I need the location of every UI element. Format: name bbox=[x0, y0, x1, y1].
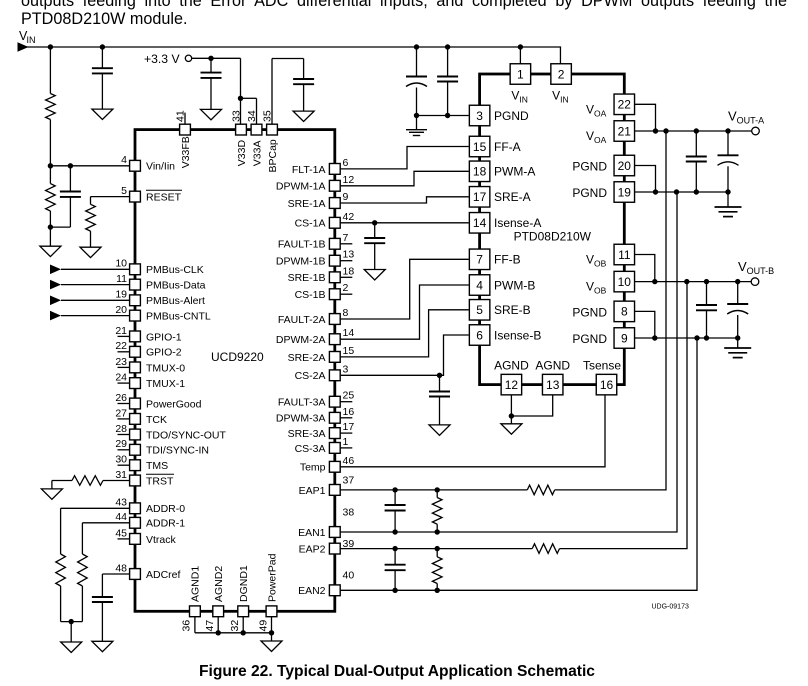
svg-text:18: 18 bbox=[473, 165, 487, 179]
svg-text:44: 44 bbox=[115, 511, 127, 523]
wire BPCap pin 35 to bypass cap bbox=[271, 59, 273, 124]
svg-text:GPIO-2: GPIO-2 bbox=[146, 347, 182, 359]
svg-text:19: 19 bbox=[618, 185, 632, 199]
svg-text:FAULT-2A: FAULT-2A bbox=[278, 314, 326, 326]
pin 14 DPWM-2A of UCD9220 bbox=[329, 334, 340, 345]
pin 4 Vin/Iin of UCD9220 bbox=[130, 160, 141, 171]
svg-text:7: 7 bbox=[476, 253, 483, 267]
wire PGND pin 3 row bbox=[417, 115, 469, 117]
pin 5 RESET of UCD9220 bbox=[130, 191, 141, 202]
svg-text:9: 9 bbox=[343, 191, 349, 203]
svg-text:Temp: Temp bbox=[300, 462, 326, 474]
pin 32 DGND1 of UCD9220 bbox=[238, 606, 249, 617]
junction AGND node bbox=[509, 413, 514, 418]
svg-text:ADCref: ADCref bbox=[146, 569, 181, 581]
svg-text:27: 27 bbox=[115, 407, 127, 419]
pin 20 PMBus-CNTL of UCD9220 bbox=[130, 310, 141, 321]
pin 21 VOA of PTD08D210W bbox=[614, 121, 635, 142]
svg-text:23: 23 bbox=[115, 356, 127, 368]
svg-text:9: 9 bbox=[621, 331, 628, 345]
pin 17 SRE-3A of UCD9220 bbox=[341, 432, 353, 434]
pin 1 VIN of PTD08D210W bbox=[510, 64, 531, 85]
svg-text:VOB: VOB bbox=[586, 253, 607, 269]
svg-text:22: 22 bbox=[115, 340, 127, 352]
svg-text:41: 41 bbox=[174, 110, 186, 122]
wire VOB pin 11 stub bbox=[635, 255, 655, 282]
pin 22 VOA of PTD08D210W bbox=[614, 94, 635, 115]
wire ADDR resistors junction to ground bbox=[61, 621, 83, 623]
junction divider bottom bbox=[48, 224, 53, 229]
capacitor CS-1A filter bbox=[374, 223, 376, 238]
svg-text:47: 47 bbox=[204, 620, 216, 632]
resistor EA2 divider bbox=[436, 549, 438, 557]
pin 26 PowerGood of UCD9220 bbox=[118, 403, 130, 405]
wire DPWM-2A to PWM-B bbox=[341, 285, 469, 339]
pin 48 ADCref of UCD9220 bbox=[130, 569, 141, 580]
svg-text:SRE-1B: SRE-1B bbox=[288, 272, 326, 284]
svg-text:1: 1 bbox=[517, 68, 524, 82]
svg-text:28: 28 bbox=[115, 423, 127, 435]
pin 37 EAP1 of UCD9220 bbox=[329, 485, 340, 496]
wire PGND pin 8 stub bbox=[635, 311, 655, 338]
junction EAN2 divider bbox=[435, 588, 440, 593]
ground 3.3V bypass cap bbox=[201, 109, 222, 119]
pin 3 CS-2A of UCD9220 bbox=[329, 370, 340, 381]
pin 8 FAULT-2A of UCD9220 bbox=[329, 314, 340, 325]
svg-text:3: 3 bbox=[476, 109, 483, 123]
wire TRST to ground bbox=[51, 481, 53, 489]
pin 36 AGND1 of UCD9220 bbox=[190, 606, 201, 617]
junction EAP2 divider bbox=[435, 546, 440, 551]
svg-text:Tsense: Tsense bbox=[583, 359, 621, 373]
pin 29 TDI/SYNC-IN of UCD9220 bbox=[118, 449, 130, 451]
wire PMBus line to pin 20 bbox=[50, 311, 61, 321]
wire 3.3V to V33D pin 33 bbox=[240, 58, 242, 124]
svg-text:PMBus-CLK: PMBus-CLK bbox=[146, 264, 204, 276]
capacitor output A ceramic bbox=[695, 131, 697, 157]
pin 17 SRE-A of PTD08D210W bbox=[469, 187, 490, 208]
junction PGND-A rail bbox=[694, 189, 699, 194]
svg-text:PWM-B: PWM-B bbox=[494, 278, 535, 292]
ground VIN bulk cap bbox=[92, 109, 113, 119]
svg-text:32: 32 bbox=[229, 620, 241, 632]
svg-text:Vtrack: Vtrack bbox=[146, 534, 177, 546]
junction on VIN rail bbox=[100, 44, 105, 49]
pin 34 V33A of UCD9220 bbox=[251, 124, 262, 135]
capacitor output B bulk polarized bbox=[737, 282, 739, 304]
resistor ADDR-1 bbox=[78, 554, 88, 586]
svg-text:16: 16 bbox=[343, 406, 355, 418]
svg-text:5: 5 bbox=[121, 185, 127, 197]
ground PTD input bbox=[406, 129, 427, 131]
pin 30 TMS of UCD9220 bbox=[118, 464, 130, 466]
svg-text:6: 6 bbox=[343, 157, 349, 169]
resistor VIN divider upper bbox=[49, 47, 51, 94]
junction on VIN rail bbox=[445, 44, 450, 49]
svg-text:21: 21 bbox=[618, 124, 632, 138]
svg-text:FAULT-1B: FAULT-1B bbox=[278, 239, 326, 251]
svg-text:CS-1B: CS-1B bbox=[295, 289, 326, 301]
svg-text:FLT-1A: FLT-1A bbox=[292, 164, 326, 176]
ground CS-2A cap bbox=[429, 425, 450, 435]
svg-text:35: 35 bbox=[262, 110, 274, 122]
wire VOUT-A rail bbox=[635, 130, 753, 132]
node VIN input arrow bbox=[18, 42, 29, 52]
wire ADDR-1 to pin 44 bbox=[82, 522, 129, 524]
pin 2 VIN of PTD08D210W bbox=[551, 64, 572, 85]
svg-text:2: 2 bbox=[558, 68, 565, 82]
svg-text:19: 19 bbox=[115, 289, 127, 301]
junction on VIN rail bbox=[518, 44, 523, 49]
junction PGND-B rail bbox=[694, 335, 699, 340]
svg-text:FF-A: FF-A bbox=[494, 140, 521, 154]
svg-text:PMBus-Data: PMBus-Data bbox=[146, 280, 206, 292]
svg-text:37: 37 bbox=[343, 474, 355, 486]
svg-text:30: 30 bbox=[115, 454, 127, 466]
wire PGND-B rail bbox=[635, 337, 738, 339]
pin 7 FAULT-1B of UCD9220 bbox=[341, 243, 353, 245]
svg-text:5: 5 bbox=[476, 303, 483, 317]
junction PGND-B rail bbox=[704, 335, 709, 340]
node VOUT-A terminal bbox=[752, 127, 760, 135]
pin 13 DPWM-1B of UCD9220 bbox=[341, 260, 353, 262]
wire 3.3V branch to V33A pin 34 bbox=[241, 97, 257, 99]
svg-text:11: 11 bbox=[116, 273, 127, 285]
capacitor PTD input bulk polarized bbox=[416, 47, 418, 77]
pin 42 CS-1A of UCD9220 bbox=[329, 217, 340, 228]
svg-text:49: 49 bbox=[257, 620, 269, 632]
svg-text:VIN: VIN bbox=[552, 89, 569, 105]
svg-text:38: 38 bbox=[343, 507, 355, 519]
junction PGND-A rail bbox=[674, 189, 679, 194]
svg-text:31: 31 bbox=[115, 469, 127, 481]
wire CS-2A to Isense-B bbox=[341, 335, 469, 375]
pin 18 PWM-A of PTD08D210W bbox=[469, 161, 490, 182]
node VOUT-B terminal bbox=[751, 278, 759, 286]
pin 35 BPCap of UCD9220 bbox=[267, 124, 278, 135]
svg-text:PMBus-CNTL: PMBus-CNTL bbox=[146, 311, 211, 323]
svg-text:BPCap: BPCap bbox=[267, 139, 279, 172]
svg-text:TCK: TCK bbox=[146, 414, 167, 426]
svg-text:3: 3 bbox=[343, 363, 349, 375]
svg-text:Isense-A: Isense-A bbox=[494, 216, 541, 230]
pin 6 FLT-1A of UCD9220 bbox=[329, 164, 340, 175]
svg-text:25: 25 bbox=[343, 390, 355, 402]
svg-text:EAP2: EAP2 bbox=[299, 544, 326, 556]
svg-text:16: 16 bbox=[600, 378, 614, 392]
pin 8 PGND of PTD08D210W bbox=[614, 301, 635, 322]
svg-text:TRST: TRST bbox=[146, 475, 174, 487]
svg-text:TMUX-1: TMUX-1 bbox=[146, 378, 185, 390]
pin 38 EAN1 of UCD9220 bbox=[329, 527, 340, 538]
body text line 2 bbox=[21, 11, 187, 29]
svg-text:AGND: AGND bbox=[535, 359, 570, 373]
svg-text:PGND: PGND bbox=[572, 186, 607, 200]
pin 7 FF-B of PTD08D210W bbox=[469, 249, 490, 269]
junction EAN1 divider bbox=[435, 529, 440, 534]
ground CS-1A cap bbox=[364, 270, 385, 280]
ground UCD power pad bbox=[261, 641, 282, 651]
pin 19 PMBus-Alert of UCD9220 bbox=[130, 295, 141, 306]
ground BPCap cap bbox=[293, 111, 314, 121]
svg-text:48: 48 bbox=[115, 562, 127, 574]
svg-text:8: 8 bbox=[343, 307, 349, 319]
ground RESET resistor bbox=[80, 247, 101, 257]
wire divider bottom to ground bbox=[49, 227, 51, 246]
junction EAP2 cap bbox=[392, 546, 397, 551]
svg-text:15: 15 bbox=[473, 140, 487, 154]
svg-text:V33A: V33A bbox=[251, 141, 263, 167]
pin 2 CS-1B of UCD9220 bbox=[341, 293, 353, 295]
svg-text:AGND2: AGND2 bbox=[213, 566, 225, 602]
pin 12 DPWM-1A of UCD9220 bbox=[329, 180, 340, 191]
wire CS-1A to Isense-A bbox=[341, 222, 469, 224]
pin 9 PGND of PTD08D210W bbox=[614, 328, 635, 349]
svg-text:18: 18 bbox=[343, 265, 355, 277]
svg-text:DGND1: DGND1 bbox=[238, 565, 250, 602]
svg-text:20: 20 bbox=[618, 159, 632, 173]
junction PGND-B rail bbox=[652, 335, 657, 340]
svg-text:UDG-09173: UDG-09173 bbox=[652, 604, 689, 611]
svg-text:FF-B: FF-B bbox=[494, 253, 521, 267]
pin 6 Isense-B of PTD08D210W bbox=[469, 325, 490, 346]
pin 41 V33FB of UCD9220 bbox=[184, 113, 186, 124]
svg-text:ADDR-1: ADDR-1 bbox=[146, 518, 185, 530]
junction EAP1 divider bbox=[435, 487, 440, 492]
svg-text:11: 11 bbox=[618, 248, 631, 262]
resistor TRST pulldown bbox=[103, 480, 129, 482]
svg-text:CS-2A: CS-2A bbox=[295, 370, 326, 382]
svg-text:12: 12 bbox=[505, 378, 519, 392]
svg-text:PTD08D210W: PTD08D210W bbox=[514, 230, 592, 244]
svg-text:AGND1: AGND1 bbox=[190, 566, 202, 602]
junction VOUT-B rail bbox=[684, 279, 689, 284]
pin 10 PMBus-CLK of UCD9220 bbox=[130, 264, 141, 275]
capacitor 3.3V bypass bbox=[210, 58, 212, 72]
svg-text:FAULT-3A: FAULT-3A bbox=[278, 397, 326, 409]
pin 31 TRST of UCD9220 bbox=[130, 475, 141, 486]
IC UCD9220 body outline bbox=[135, 130, 335, 612]
resistor ADDR-0 bbox=[56, 554, 66, 586]
pin 16 DPWM-3A of UCD9220 bbox=[341, 417, 353, 419]
pin 16 Tsense of PTD08D210W bbox=[596, 374, 617, 395]
svg-text:Isense-B: Isense-B bbox=[494, 328, 541, 342]
wire FAULT-2A to FF-B bbox=[341, 259, 469, 319]
junction Vin/Iin node bbox=[48, 163, 53, 168]
svg-text:DPWM-3A: DPWM-3A bbox=[276, 413, 326, 425]
svg-text:6: 6 bbox=[476, 328, 483, 342]
svg-text:8: 8 bbox=[621, 305, 628, 319]
wire DPWM-1A to PWM-A bbox=[341, 171, 469, 186]
wire PGND-A to ground bbox=[727, 192, 729, 207]
svg-text:21: 21 bbox=[115, 325, 127, 337]
svg-text:20: 20 bbox=[115, 304, 127, 316]
pin 33 V33D of UCD9220 bbox=[236, 124, 247, 135]
junction VOUT-B rail bbox=[704, 279, 709, 284]
ground VIN divider bbox=[40, 246, 61, 256]
svg-text:VOB: VOB bbox=[586, 280, 607, 296]
junction EAP1 filter cap bbox=[392, 487, 397, 492]
junction EAN1 cap bbox=[392, 529, 397, 534]
svg-text:17: 17 bbox=[473, 190, 487, 204]
svg-text:EAN1: EAN1 bbox=[298, 527, 326, 539]
svg-text:40: 40 bbox=[343, 569, 355, 581]
svg-text:AGND: AGND bbox=[494, 359, 529, 373]
svg-text:IN: IN bbox=[27, 35, 36, 45]
svg-text:PGND: PGND bbox=[572, 332, 607, 346]
svg-text:PowerPad: PowerPad bbox=[266, 553, 278, 602]
svg-text:2: 2 bbox=[343, 282, 349, 294]
junction VOUT-B rail bbox=[735, 279, 740, 284]
svg-text:UCD9220: UCD9220 bbox=[211, 350, 264, 364]
capacitor VIN bulk bbox=[101, 47, 103, 68]
capacitor PTD input ceramic bbox=[447, 47, 449, 77]
pin 15 FF-A of PTD08D210W bbox=[469, 136, 490, 157]
svg-text:PWM-A: PWM-A bbox=[494, 165, 535, 179]
pin 47 AGND2 of UCD9220 bbox=[213, 606, 224, 617]
svg-text:+3.3 V: +3.3 V bbox=[144, 52, 180, 66]
pin 23 TMUX-0 of UCD9220 bbox=[118, 366, 130, 368]
pin 18 SRE-1B of UCD9220 bbox=[341, 276, 353, 278]
svg-text:26: 26 bbox=[115, 392, 127, 404]
junction on VIN rail bbox=[48, 44, 53, 49]
IC PTD08D210W body outline bbox=[480, 74, 625, 385]
svg-text:24: 24 bbox=[115, 372, 127, 384]
svg-text:SRE-A: SRE-A bbox=[494, 190, 531, 204]
pin 22 GPIO-2 of UCD9220 bbox=[118, 351, 130, 353]
svg-text:ADDR-0: ADDR-0 bbox=[146, 503, 185, 515]
ground output B bbox=[724, 347, 751, 349]
capacitor Vin/Iin filter bbox=[69, 166, 71, 192]
junction PGND-A rail bbox=[725, 189, 730, 194]
svg-text:17: 17 bbox=[343, 421, 355, 433]
capacitor BPCap bypass bbox=[293, 78, 314, 80]
svg-text:VOA: VOA bbox=[586, 102, 607, 118]
junction VOUT-A rail bbox=[694, 128, 699, 133]
wire PMBus line to pin 10 bbox=[50, 265, 61, 275]
svg-text:34: 34 bbox=[246, 110, 258, 122]
wire EAP2 feedback row bbox=[341, 548, 533, 550]
pin 3 PGND of PTD08D210W bbox=[469, 105, 490, 126]
junction PGND-A rail bbox=[653, 189, 658, 194]
svg-text:CS-1A: CS-1A bbox=[295, 218, 326, 230]
svg-text:V33D: V33D bbox=[236, 140, 248, 167]
svg-text:33: 33 bbox=[231, 110, 243, 122]
svg-text:PMBus-Alert: PMBus-Alert bbox=[146, 295, 205, 307]
wire FLT-1A to FF-A bbox=[341, 147, 469, 169]
svg-text:EAN2: EAN2 bbox=[298, 585, 326, 597]
svg-text:7: 7 bbox=[343, 232, 349, 244]
pin 11 VOB of PTD08D210W bbox=[614, 244, 635, 265]
wire EAP1 feedback row bbox=[341, 489, 528, 491]
junction VOUT-A rail bbox=[725, 128, 730, 133]
pin 25 FAULT-3A of UCD9220 bbox=[341, 401, 353, 403]
svg-text:43: 43 bbox=[115, 497, 127, 509]
capacitor ADCref bbox=[92, 596, 113, 598]
svg-text:Figure 22. Typical Dual-Output: Figure 22. Typical Dual-Output Applicati… bbox=[199, 663, 595, 680]
pin 20 PGND of PTD08D210W bbox=[614, 155, 635, 176]
wire EAN2 row to PGND-B sense bbox=[341, 338, 697, 590]
capacitor EA1 filter bbox=[394, 490, 396, 505]
svg-text:14: 14 bbox=[473, 216, 487, 230]
svg-text:12: 12 bbox=[343, 174, 355, 186]
wire Vin/Iin to pin 4 bbox=[50, 165, 129, 167]
pin 5 SRE-B of PTD08D210W bbox=[469, 300, 490, 321]
wire AGND1/AGND2/DGND1/PowerPad common ground bbox=[194, 617, 196, 633]
svg-text:4: 4 bbox=[121, 154, 127, 166]
junction CS-2A filter bbox=[437, 373, 442, 378]
svg-text:RESET: RESET bbox=[146, 192, 182, 204]
junction VOUT-A rail bbox=[653, 128, 658, 133]
svg-text:TMS: TMS bbox=[146, 460, 168, 472]
svg-text:DPWM-1B: DPWM-1B bbox=[276, 256, 326, 268]
junction PGND-B rail bbox=[735, 335, 740, 340]
pin 43 ADDR-0 of UCD9220 bbox=[130, 503, 141, 514]
svg-text:SRE-3A: SRE-3A bbox=[288, 428, 326, 440]
resistor EA1 divider bbox=[436, 490, 438, 498]
svg-text:PGND: PGND bbox=[494, 109, 529, 123]
svg-text:45: 45 bbox=[115, 527, 127, 539]
svg-text:VOUT-A: VOUT-A bbox=[728, 109, 764, 126]
pin 9 SRE-1A of UCD9220 bbox=[329, 198, 340, 209]
pin 40 EAN2 of UCD9220 bbox=[329, 585, 340, 596]
ground ADDR resistors bbox=[61, 642, 82, 652]
wire EAP1 row to VOUT-A sense bbox=[555, 131, 666, 490]
resistor VIN divider lower bbox=[49, 166, 51, 184]
wire VOA pin 20 stub bbox=[635, 166, 656, 193]
junction EAN2 cap bbox=[392, 588, 397, 593]
svg-text:10: 10 bbox=[618, 275, 632, 289]
wire VIN rail drop to PTD pin 1 bbox=[519, 47, 521, 64]
wire EAN1 row to PGND-A sense bbox=[341, 192, 677, 532]
pin 10 VOB of PTD08D210W bbox=[614, 271, 635, 292]
svg-text:VIN: VIN bbox=[511, 89, 528, 105]
svg-text:SRE-2A: SRE-2A bbox=[288, 352, 326, 364]
pin 24 TMUX-1 of UCD9220 bbox=[118, 382, 130, 384]
pin 21 GPIO-1 of UCD9220 bbox=[118, 335, 130, 337]
svg-text:4: 4 bbox=[476, 278, 483, 292]
svg-text:SRE-B: SRE-B bbox=[494, 303, 531, 317]
pin 19 PGND of PTD08D210W bbox=[614, 182, 635, 203]
svg-text:DPWM-2A: DPWM-2A bbox=[276, 334, 326, 346]
pin 15 SRE-2A of UCD9220 bbox=[329, 352, 340, 363]
junction CS-1A filter bbox=[372, 220, 377, 225]
pin 46 Temp of UCD9220 bbox=[329, 461, 340, 472]
svg-text:GPIO-1: GPIO-1 bbox=[146, 331, 182, 343]
junction VOUT-A rail bbox=[663, 128, 668, 133]
junction on VIN rail bbox=[414, 44, 419, 49]
wire 3.3V rail bbox=[191, 57, 240, 59]
wire PGND-A rail bbox=[635, 191, 728, 193]
svg-text:PowerGood: PowerGood bbox=[146, 398, 202, 410]
capacitor CS-2A filter bbox=[439, 375, 441, 391]
wire PGND-B to ground bbox=[737, 338, 739, 348]
svg-text:TMUX-0: TMUX-0 bbox=[146, 362, 185, 374]
svg-text:V33FB: V33FB bbox=[180, 136, 192, 168]
resistor EAP1 series bbox=[527, 485, 554, 495]
svg-text:22: 22 bbox=[618, 98, 632, 112]
wire PMBus line to pin 19 bbox=[50, 296, 61, 306]
ground output A bbox=[715, 206, 742, 208]
svg-text:SRE-1A: SRE-1A bbox=[288, 198, 326, 210]
ground PTD AGND bbox=[510, 416, 512, 424]
ground TRST bbox=[41, 489, 62, 499]
wire PMBus line to pin 11 bbox=[50, 280, 61, 290]
pin 39 EAP2 of UCD9220 bbox=[329, 543, 340, 554]
svg-text:42: 42 bbox=[343, 211, 355, 223]
svg-text:VOA: VOA bbox=[586, 129, 607, 145]
ground ADCref cap bbox=[92, 641, 113, 651]
